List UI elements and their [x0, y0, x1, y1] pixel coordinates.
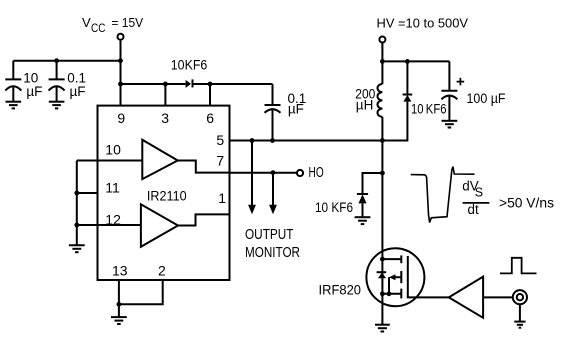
wire A2 output to pin1 — [178, 214, 230, 225]
svg-text:HV =10 to 500V: HV =10 to 500V — [377, 16, 469, 31]
pulse waveform symbol — [500, 258, 537, 274]
junction dot pin3 — [163, 82, 168, 87]
capacitor C3 0.1uF bootstrap — [265, 84, 281, 141]
connector J1 coax — [513, 290, 527, 322]
wire A1 output to pin7 — [178, 161, 230, 173]
label C3 0.1uF — [288, 91, 307, 117]
plus sign C4 — [457, 78, 465, 86]
wire VCC rail to bypass caps — [13, 60, 120, 62]
wire HV drop — [381, 43, 383, 84]
wire pin11 stub — [77, 192, 98, 194]
IC U1 IR2110 box — [98, 106, 230, 280]
wire pin5 to switch node — [230, 140, 383, 142]
wire pin 6 — [209, 84, 211, 106]
label 10uF — [23, 70, 42, 99]
junction dot pin13/pin2 — [117, 302, 122, 307]
node HV terminal — [379, 37, 385, 43]
svg-text:11: 11 — [105, 180, 120, 196]
capacitor C4 100uF — [441, 61, 457, 120]
junction dot Q1 drain — [380, 257, 385, 262]
label L1 200uH — [355, 86, 375, 112]
junction dot VCC rail1 — [118, 58, 123, 63]
junction dot Q1 body — [387, 291, 392, 296]
ground Q1 — [375, 325, 390, 332]
junction dot D3 stub — [380, 171, 385, 176]
wire pin13 — [118, 280, 120, 304]
junction dot pin6 — [208, 82, 213, 87]
junction dot cap rail — [54, 58, 59, 63]
svg-text:100 µF: 100 µF — [467, 91, 506, 106]
svg-text:CC: CC — [91, 21, 106, 35]
svg-text:µF: µF — [26, 84, 42, 99]
wire A2 input pin12 — [77, 224, 141, 226]
junction dot D2 top — [405, 59, 410, 64]
svg-text:5: 5 — [216, 132, 224, 148]
label dVs/dt — [462, 179, 483, 218]
svg-text:HO: HO — [309, 164, 324, 181]
svg-text:1: 1 — [218, 190, 226, 206]
junction dot Q1 source — [380, 291, 385, 296]
probe arrow 2 — [269, 173, 277, 215]
inductor L1 200uH — [377, 84, 382, 141]
svg-text:= 15V: = 15V — [111, 15, 143, 30]
junction dot C3 bottom — [270, 138, 275, 143]
svg-text:7: 7 — [216, 152, 224, 168]
wire VCC drop to pin 9 — [120, 40, 122, 106]
wire Q1 gate — [408, 256, 449, 297]
ground C2 — [49, 102, 65, 109]
junction dot pin11 — [74, 191, 79, 196]
svg-text:>50 V/ns: >50 V/ns — [499, 194, 554, 210]
svg-text:IR2110: IR2110 — [147, 188, 187, 204]
wire stub to D3 — [363, 173, 383, 194]
svg-text:µF: µF — [288, 102, 304, 117]
ground C1 — [6, 102, 22, 109]
wire A3 output to connector — [483, 296, 513, 298]
wire left bus pins 10,11,12 — [76, 161, 78, 246]
diode D2 10KF6 clamp — [382, 61, 412, 140]
svg-text:OUTPUT: OUTPUT — [245, 227, 294, 243]
junction dot arrow2 — [271, 170, 276, 175]
op-amp buffer A1 — [142, 140, 177, 179]
svg-text:2: 2 — [158, 262, 166, 278]
capacitor C1 10uF — [5, 61, 21, 102]
fraction bar dVs/dt — [463, 202, 490, 204]
op-amp buffer A2 — [141, 204, 178, 247]
svg-text:dt: dt — [468, 202, 479, 217]
diode D3 10KF6 — [357, 194, 368, 217]
diode D1 10KF6 — [186, 79, 193, 88]
junction dot HV rail — [380, 59, 385, 64]
junction dot arrow1 — [250, 138, 255, 143]
probe arrow 1 — [248, 141, 256, 215]
waveform dVs/dt sketch — [411, 167, 475, 223]
ground left bus — [69, 245, 85, 252]
op-amp driver A3 — [449, 277, 483, 318]
wire switch node down to MOSFET — [381, 141, 383, 260]
svg-text:6: 6 — [206, 110, 214, 126]
svg-text:MONITOR: MONITOR — [245, 245, 300, 261]
wire HV rail to 100uF — [382, 60, 449, 62]
label 0.1uF — [67, 70, 86, 99]
wire A1 input pin10 — [77, 160, 143, 162]
svg-text:10KF6: 10KF6 — [171, 57, 208, 72]
svg-text:10 KF6: 10 KF6 — [315, 200, 353, 215]
node HO terminal — [297, 170, 303, 176]
transistor Q1 IRF820 — [366, 248, 424, 306]
wire VCC rail2 with diode to pin6 and 0.1uF — [121, 83, 273, 85]
svg-text:10: 10 — [105, 142, 121, 158]
svg-text:3: 3 — [161, 110, 169, 126]
svg-text:µF: µF — [70, 84, 86, 99]
junction dot switch node — [380, 138, 385, 143]
svg-text:µH: µH — [356, 98, 374, 113]
capacitor C2 0.1uF — [49, 61, 65, 102]
label VCC = 15V — [82, 15, 143, 35]
node VCC terminal — [118, 34, 124, 40]
ground C4 — [442, 121, 458, 128]
svg-text:12: 12 — [105, 212, 121, 228]
wire Q1 source to ground — [381, 294, 383, 325]
junction dot VCC rail2 — [118, 82, 123, 87]
svg-text:13: 13 — [112, 262, 128, 278]
ground D3 — [355, 217, 371, 224]
ground IC bottom — [111, 304, 127, 324]
wire pin 3 — [164, 84, 166, 106]
svg-text:10 KF6: 10 KF6 — [411, 101, 447, 116]
svg-text:9: 9 — [117, 110, 125, 126]
label D1 10KF6 — [171, 57, 208, 72]
wire pin2 — [119, 280, 163, 304]
svg-text:S: S — [475, 186, 483, 200]
svg-text:IRF820: IRF820 — [319, 282, 362, 298]
ground J1 — [514, 322, 525, 328]
svg-text:V: V — [82, 15, 91, 30]
junction dot pin12 — [74, 223, 79, 228]
wire pin7 to HO — [230, 172, 297, 174]
